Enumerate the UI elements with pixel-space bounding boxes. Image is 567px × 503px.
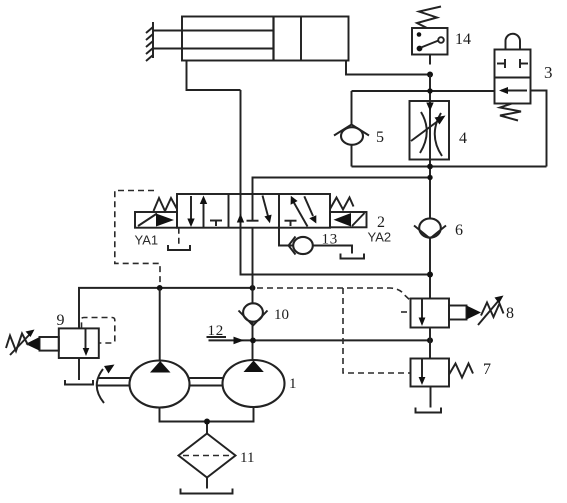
wire L2 valve2 to right pump [252, 228, 254, 361]
valve 2 drain to tank [178, 228, 180, 246]
directional valve 2 body [177, 194, 330, 228]
solenoid YA1 [135, 212, 177, 228]
junction L2 rail [250, 285, 256, 291]
valve 3 spring [500, 104, 521, 121]
tank under valve 7 [416, 408, 442, 413]
valve 2 left box arrows [187, 196, 222, 228]
cylinder body [182, 17, 349, 61]
valve 7 [411, 359, 450, 387]
pump 1 right [223, 360, 285, 407]
svg-text:YA2: YA2 [368, 230, 392, 245]
svg-text:10: 10 [274, 307, 289, 323]
wire L1 cylinder line through valve to bottom rail [241, 90, 431, 275]
cylinder piston rod [153, 31, 274, 49]
junction loop bottom [427, 164, 433, 170]
wire pumps to filter [160, 407, 254, 422]
valve 3 plunger [506, 34, 521, 50]
valve 2 middle box diagonal [263, 196, 272, 224]
wire main line check6 to valve 8 [429, 239, 431, 299]
valve 2 middle box up arrow [237, 214, 244, 223]
check valve 5 [334, 125, 369, 145]
wire valve 2 to check valve 13 [279, 228, 293, 246]
rotation arrow [97, 365, 115, 404]
main vertical line through flow valve [429, 75, 431, 219]
pressure switch 14 [412, 28, 448, 65]
loop right wire (valve 3 branch) [531, 91, 547, 167]
filter drain [206, 478, 208, 489]
valve 8 spring [478, 296, 504, 326]
check valve 10 [239, 303, 268, 325]
svg-text:3: 3 [544, 63, 553, 82]
valve 2 right box blocked port [285, 221, 297, 226]
dashed sensing line to valve 8 [257, 288, 411, 301]
node A junction [427, 72, 433, 78]
wire check 13 to tank [313, 246, 352, 254]
junction left pump [157, 285, 163, 291]
pressure switch 14 spring [417, 7, 441, 29]
svg-text:8: 8 [506, 305, 514, 322]
wire valve2 top port to main line [253, 178, 431, 195]
wall mount hatching [146, 22, 153, 61]
valve 8 [411, 299, 482, 328]
valve 9 drain [78, 358, 80, 380]
svg-text:2: 2 [377, 214, 385, 231]
line 12 with arrow [209, 337, 431, 345]
junction line12 pump [250, 338, 256, 344]
wire cylinder right port to node A [346, 61, 430, 75]
pump 1 left [130, 361, 190, 408]
pump drive shaft stub [98, 378, 130, 386]
junction loop top [427, 88, 432, 93]
valve 9 spring [6, 330, 35, 356]
tank under filter [181, 489, 233, 494]
junction filter [204, 419, 210, 425]
junction line12 right rail [427, 337, 433, 343]
valve 2 right box diagonal arrows [291, 196, 317, 227]
loop bottom wire [352, 166, 547, 168]
tank after check 13 [341, 254, 365, 259]
valve 2 left spring [154, 198, 178, 211]
loop top wire [352, 90, 495, 92]
filter 11 [179, 434, 236, 478]
wire pump rail [79, 288, 253, 329]
valve 3 [495, 50, 531, 104]
svg-text:4: 4 [459, 130, 467, 147]
valve 9 [26, 328, 99, 358]
dashed pilot line from valve 2 left [115, 191, 160, 286]
valve 7 drain [430, 387, 432, 408]
tank under valve 2 [168, 245, 190, 250]
label 12 underline [207, 336, 227, 338]
pump shaft [190, 378, 224, 386]
flow control valve 4 [410, 101, 450, 160]
junction [427, 175, 432, 180]
dashed sensing line to valve 7 [343, 288, 411, 373]
wire valve 8 to valve 7 [429, 328, 431, 359]
wire left pump to rail [159, 288, 161, 361]
solenoid YA2 [330, 212, 367, 227]
valve 7 spring [449, 364, 473, 378]
wire check valve 5 branch [351, 91, 353, 125]
svg-text:11: 11 [240, 450, 254, 466]
junction L1 rail [427, 272, 433, 278]
valve 2 middle box blocked port [252, 194, 254, 221]
svg-text:9: 9 [57, 312, 65, 329]
svg-text:YA1: YA1 [135, 233, 159, 248]
svg-text:6: 6 [455, 222, 463, 239]
svg-text:5: 5 [376, 129, 384, 146]
check valve 6 [414, 218, 446, 238]
check valve 13 [289, 237, 313, 255]
wire cylinder left port to valve 2 [187, 61, 241, 91]
tank under valve 9 [65, 380, 93, 385]
svg-text:1: 1 [289, 376, 297, 392]
svg-text:14: 14 [455, 31, 471, 48]
valve 9 dashed pilot loop [82, 318, 115, 344]
svg-text:7: 7 [483, 361, 491, 378]
valve 2 right spring [330, 198, 354, 210]
